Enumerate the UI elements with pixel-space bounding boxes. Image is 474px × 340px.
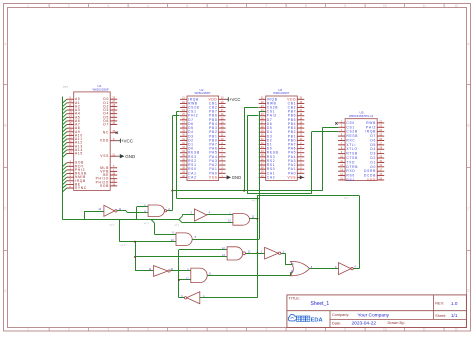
svg-text:6: 6 [226,328,228,332]
svg-text:+VCC: +VCC [229,97,240,102]
svg-text:1.0: 1.0 [451,301,458,306]
svg-text:TXD: TXD [346,160,355,164]
svg-text:REV:: REV: [435,302,444,306]
svg-text:11: 11 [423,4,427,8]
svg-text:Your Company: Your Company [358,313,390,319]
svg-text:SOB: SOB [100,184,109,188]
svg-text:6: 6 [226,4,228,8]
svg-text:Date:: Date: [332,321,341,325]
svg-text:RS0: RS0 [346,174,355,178]
svg-text:1: 1 [27,328,29,332]
svg-text:GND: GND [232,175,241,180]
svg-text:Drawn By:: Drawn By: [388,321,406,325]
svg-text:W65C22N6T: W65C22N6T [273,91,289,95]
svg-text:5: 5 [186,328,188,332]
svg-text:RXD: RXD [346,169,355,173]
svg-text:con1: con1 [63,87,69,89]
svg-text:DSRB: DSRB [364,169,376,173]
svg-text:DTRB: DTRB [346,165,358,169]
svg-text:11: 11 [423,328,427,332]
svg-text:TITLE:: TITLE: [289,296,300,300]
svg-text:+VCC: +VCC [121,138,134,143]
svg-text:SYNC: SYNC [75,186,87,190]
svg-text:4: 4 [147,328,149,332]
svg-text:NC: NC [103,131,109,135]
svg-text:2: 2 [68,328,70,332]
svg-text:2: 2 [68,4,70,8]
svg-text:CA2: CA2 [267,175,276,179]
svg-text:D2: D2 [370,156,376,160]
svg-text:A15: A15 [75,152,83,156]
svg-text:B: B [4,124,6,128]
svg-text:D7: D7 [103,123,109,127]
svg-text:VSS: VSS [287,175,296,179]
svg-text:4: 4 [147,4,149,8]
svg-text:GND: GND [125,154,136,159]
svg-text:VDD: VDD [367,178,376,182]
svg-text:8: 8 [305,328,307,332]
svg-text:10: 10 [383,4,387,8]
svg-text:DCDB: DCDB [364,174,376,178]
svg-text:2023-04-22: 2023-04-22 [352,321,377,327]
svg-text:5: 5 [186,4,188,8]
svg-text:CTSB: CTSB [346,156,358,160]
svg-text:3: 3 [107,4,109,8]
svg-text:XTLO: XTLO [346,147,357,151]
svg-text:3: 3 [107,328,109,332]
svg-text:Sheet_1: Sheet_1 [311,301,330,307]
svg-text:VDD: VDD [100,139,109,143]
svg-text:VSS: VSS [100,154,109,158]
svg-text:W65C22N6T: W65C22N6T [195,91,211,95]
svg-text:CA2: CA2 [188,175,197,179]
svg-text:D3: D3 [370,152,376,156]
svg-text:D1: D1 [370,160,376,164]
svg-text:Sheet:: Sheet: [435,314,446,318]
svg-text:9: 9 [344,4,346,8]
svg-text:W65C51N6TPG-14: W65C51N6TPG-14 [349,114,374,118]
svg-text:RS1: RS1 [346,178,355,182]
svg-text:B: B [467,124,469,128]
svg-text:RTSB: RTSB [346,152,358,156]
svg-text:9: 9 [344,328,346,332]
svg-text:7: 7 [265,328,267,332]
svg-text:10: 10 [383,328,387,332]
svg-text:D0: D0 [370,165,376,169]
svg-text:D4: D4 [370,147,376,151]
svg-text:1/1: 1/1 [451,313,458,318]
svg-text:EDA: EDA [311,317,323,323]
svg-text:VSS: VSS [209,175,218,179]
svg-text:Company:: Company: [332,313,349,317]
svg-text:7: 7 [265,4,267,8]
svg-text:12: 12 [454,328,458,332]
svg-text:8: 8 [305,4,307,8]
svg-text:12: 12 [454,4,458,8]
svg-text:W65C02S6P: W65C02S6P [93,87,109,91]
svg-text:1: 1 [27,4,29,8]
